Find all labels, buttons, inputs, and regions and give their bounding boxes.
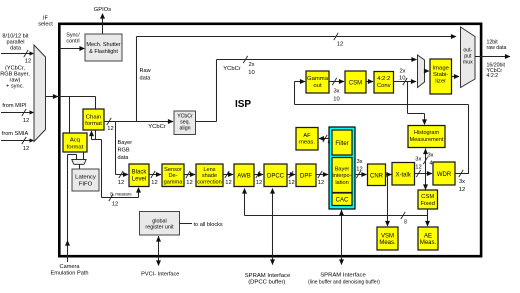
- svg-text:out: out: [313, 83, 322, 89]
- container denoising block (cyan): [329, 127, 355, 209]
- svg-text:Acq: Acq: [70, 138, 80, 144]
- svg-text:raw data: raw data: [487, 45, 507, 51]
- block AF meas.: [296, 128, 318, 151]
- block Bayer interpolation: [332, 158, 352, 193]
- wire branch down to Histogram Measurement: [407, 82, 409, 114]
- block VSM Meas.: [377, 227, 398, 250]
- svg-text:interpo-: interpo-: [333, 173, 352, 179]
- input IF-select mux: [34, 45, 46, 142]
- svg-text:10: 10: [248, 70, 254, 76]
- svg-text:format: format: [67, 144, 84, 150]
- block Latency FIFO: [72, 169, 99, 191]
- svg-text:4:2:2: 4:2:2: [487, 73, 499, 79]
- wire 4:2:2 Conv output 2x10 to small mux: [394, 81, 417, 83]
- svg-text:Image: Image: [433, 65, 450, 71]
- svg-text:WDR: WDR: [437, 172, 452, 178]
- svg-text:3x: 3x: [415, 157, 421, 163]
- svg-text:from MIPI: from MIPI: [2, 103, 27, 109]
- svg-text:SPRAM Interface: SPRAM Interface: [245, 273, 291, 279]
- wire chip output arrow: [475, 56, 510, 58]
- block DPF: [296, 164, 316, 187]
- svg-text:Conv: Conv: [377, 83, 391, 89]
- output mux: [461, 27, 476, 88]
- wire DPF to Bayer interpolation 12: [316, 174, 328, 176]
- svg-text:YCbCr: YCbCr: [148, 124, 165, 130]
- svg-text:data: data: [118, 155, 130, 161]
- block Histogram Measurement: [408, 126, 445, 148]
- wire DPCC to SPRAM interface (bidirectional): [272, 189, 274, 265]
- svg-text:3x: 3x: [333, 89, 339, 95]
- svg-text:Measurement: Measurement: [410, 137, 444, 143]
- wire AWB to DPCC 12: [254, 174, 263, 176]
- svg-text:Meas.: Meas.: [379, 240, 396, 246]
- svg-text:12: 12: [459, 187, 465, 193]
- svg-text:12: 12: [225, 180, 231, 186]
- svg-text:Latency: Latency: [75, 174, 96, 180]
- svg-text:12: 12: [186, 180, 192, 186]
- block DPCC: [264, 164, 287, 187]
- block Image Stabilizer: [430, 59, 452, 94]
- svg-text:12: 12: [23, 118, 29, 124]
- wire CSM Fixed to AE Meas: [427, 209, 429, 226]
- block CNR: [368, 164, 386, 186]
- svg-text:10: 10: [333, 97, 339, 103]
- funnel merge symbol below Acq format: [72, 160, 86, 165]
- block Lens shade correction: [196, 164, 223, 187]
- wire GPIOs up-arrow: [102, 14, 104, 34]
- svg-text:Bayer: Bayer: [118, 140, 133, 146]
- svg-text:(line buffer and denoising buf: (line buffer and denoising buffer): [308, 280, 380, 286]
- block AWB: [234, 164, 254, 187]
- svg-text:CAC: CAC: [336, 197, 349, 203]
- block WDR: [433, 162, 455, 185]
- svg-text:12: 12: [112, 202, 118, 208]
- block 4:2:2 Conv: [374, 72, 394, 94]
- svg-text:8: 8: [404, 220, 407, 226]
- svg-text:12: 12: [151, 180, 157, 186]
- wire AE feedback 8 to AWB: [245, 215, 428, 217]
- wire mux output into chip: [46, 96, 96, 98]
- svg-text:ISP: ISP: [235, 99, 251, 110]
- svg-text:RGB: RGB: [118, 148, 130, 154]
- svg-text:AF: AF: [303, 133, 311, 139]
- svg-text:GPIOs: GPIOs: [94, 7, 111, 13]
- svg-text:Chain: Chain: [86, 114, 101, 120]
- svg-text:De-: De-: [168, 173, 177, 179]
- svg-text:Camera: Camera: [60, 264, 81, 270]
- svg-text:DPF: DPF: [300, 174, 312, 180]
- block AE Meas.: [418, 227, 438, 250]
- svg-text:contrl: contrl: [66, 39, 79, 45]
- wire Acq format to funnel stub: [83, 152, 85, 160]
- svg-text:Bayer: Bayer: [335, 166, 350, 172]
- block X-talk: [392, 163, 415, 186]
- svg-text:Level: Level: [132, 176, 146, 182]
- svg-text:Emulation Path: Emulation Path: [51, 270, 89, 276]
- svg-text:format: format: [85, 121, 102, 127]
- svg-text:VSM: VSM: [381, 233, 394, 239]
- svg-text:Black: Black: [132, 170, 148, 176]
- svg-text:12: 12: [118, 180, 124, 186]
- wire CSM to 4:2:2 Conv: [366, 81, 373, 83]
- svg-text:Meas.: Meas.: [420, 240, 437, 246]
- wire Lens shade to AWB 12: [223, 174, 233, 176]
- svg-text:12: 12: [23, 146, 29, 152]
- svg-text:to all blocks: to all blocks: [194, 222, 223, 228]
- wire drop to Chain format jog: [95, 97, 97, 140]
- wire Histogram vertical to CSM Fixed with 3x12 3x4: [425, 149, 427, 190]
- svg-text:data: data: [140, 76, 152, 82]
- svg-text:& Flashlight: & Flashlight: [89, 49, 118, 55]
- svg-text:lizer: lizer: [435, 79, 446, 85]
- wire camera emulation path vertical: [67, 155, 69, 263]
- svg-text:YCbCr: YCbCr: [223, 66, 240, 72]
- svg-text:+ sync.: + sync.: [6, 84, 24, 90]
- block CAC: [332, 193, 352, 206]
- wire WDR feedback to Gamma out: [468, 105, 470, 174]
- svg-text:align: align: [180, 126, 191, 132]
- svg-text:3x: 3x: [427, 153, 433, 159]
- svg-text:Fixed: Fixed: [420, 201, 434, 207]
- wire Gamma out to CSM 3x10: [329, 81, 344, 83]
- svg-text:10,: 10,: [399, 76, 407, 82]
- block Black Level: [129, 164, 149, 187]
- svg-text:lation: lation: [335, 180, 348, 186]
- svg-text:12: 12: [256, 180, 262, 186]
- wire PVCI interface (bidirectional): [158, 236, 160, 266]
- wire Filter to AF meas 8: [319, 138, 329, 140]
- svg-text:3x: 3x: [356, 159, 362, 165]
- svg-text:12: 12: [25, 59, 31, 65]
- svg-text:SPRAM Interface: SPRAM Interface: [320, 272, 366, 278]
- wire parallel data input with bus width 12: [1, 53, 33, 55]
- wire branch down to Acq format: [69, 97, 71, 134]
- block Sensor De-gamma: [162, 164, 184, 187]
- wire CNR branch down to VSM Meas: [387, 175, 389, 226]
- wire Black Level to Sensor De-gamma 12: [149, 174, 161, 176]
- svg-text:12: 12: [107, 126, 113, 132]
- wire raw data 12-bit top line to output mux: [137, 36, 457, 38]
- wire to all blocks stub: [180, 223, 193, 225]
- wire denoising container to SPRAM interface (bidirectional): [341, 210, 343, 265]
- wire branch Bayer RGB data down to Black Level: [115, 122, 117, 175]
- svg-text:from SMIA: from SMIA: [2, 131, 29, 137]
- svg-text:2x: 2x: [399, 69, 405, 75]
- svg-text:2x: 2x: [248, 62, 254, 68]
- svg-text:Filter: Filter: [335, 141, 348, 147]
- block CSM: [345, 71, 366, 93]
- svg-text:PVCI- Interface: PVCI- Interface: [141, 271, 179, 277]
- wire seq align output YCbCr 2x10 to small mux: [196, 121, 217, 123]
- block Gamma out: [306, 71, 329, 93]
- svg-text:Stabi-: Stabi-: [433, 72, 448, 78]
- svg-text:AWB: AWB: [237, 174, 250, 180]
- svg-text:4:2:2: 4:2:2: [377, 76, 390, 82]
- wire Image Stabilizer to output mux: [452, 76, 460, 78]
- wire CNR to X-talk: [386, 174, 392, 176]
- block global register unit: [140, 212, 180, 236]
- svg-text:CNR: CNR: [370, 173, 384, 179]
- svg-text:12: 12: [288, 180, 294, 186]
- wire Bayer interpolation to CNR 3x12: [355, 174, 367, 176]
- svg-text:Gamma: Gamma: [307, 76, 329, 82]
- svg-text:CSM: CSM: [421, 194, 434, 200]
- wire mux to Image Stabilizer: [425, 70, 430, 72]
- svg-text:Mech. Shutter: Mech. Shutter: [86, 42, 120, 48]
- svg-text:3x: 3x: [459, 179, 465, 185]
- wire B measure line to Black Level: [96, 139, 102, 141]
- wire camera emulation jog into funnel: [68, 154, 77, 156]
- block Mech. Shutter & Flashlight: [85, 34, 122, 61]
- svg-text:Lens: Lens: [203, 167, 215, 173]
- wire raw data vertical: [136, 37, 138, 122]
- svg-text:put: put: [464, 54, 472, 60]
- svg-text:out-: out-: [463, 48, 472, 54]
- wire WDR output 3x12: [455, 173, 469, 175]
- svg-text:meas.: meas.: [299, 139, 315, 145]
- block Chain format: [83, 109, 104, 130]
- svg-text:data: data: [10, 46, 22, 52]
- svg-text:gamma: gamma: [164, 180, 184, 186]
- svg-text:12: 12: [415, 165, 421, 171]
- wire DPCC to DPF 12: [287, 174, 295, 176]
- wire Sensor De-gamma to Lens shade 12: [184, 174, 195, 176]
- svg-text:12: 12: [318, 180, 324, 186]
- block Acq format: [63, 133, 87, 152]
- svg-text:mux: mux: [463, 60, 473, 66]
- wire sync-contrl arrow: [60, 48, 81, 50]
- mux before Image Stabilizer: [418, 55, 425, 88]
- block YCbCr seq. align: [174, 111, 196, 135]
- wire funnel to Latency FIFO: [79, 164, 81, 169]
- svg-text:CSM: CSM: [349, 81, 362, 87]
- svg-text:Histogram: Histogram: [414, 130, 439, 136]
- wire X-talk to WDR: [415, 173, 433, 175]
- svg-text:FIFO: FIFO: [79, 181, 93, 187]
- svg-text:select: select: [38, 22, 53, 28]
- wire Chain format output YCbCr 12: [104, 121, 173, 123]
- svg-text:register unit: register unit: [145, 225, 174, 231]
- svg-text:Sensor: Sensor: [164, 167, 182, 173]
- svg-text:correction: correction: [197, 180, 222, 186]
- svg-text:Raw: Raw: [140, 68, 152, 74]
- wire from SMIA with bus width 12: [1, 140, 33, 142]
- svg-text:shade: shade: [202, 173, 217, 179]
- wire from MIPI with bus width 12: [1, 112, 33, 114]
- svg-text:DPCC: DPCC: [267, 174, 285, 180]
- svg-text:12: 12: [337, 42, 343, 48]
- svg-text:12: 12: [356, 167, 362, 173]
- svg-text:B, measure: B, measure: [110, 192, 132, 197]
- svg-text:(DPCC buffer): (DPCC buffer): [248, 280, 285, 286]
- svg-text:X-talk: X-talk: [396, 172, 412, 178]
- svg-text:AE: AE: [424, 233, 432, 239]
- block CSM Fixed: [418, 190, 438, 209]
- block Filter: [332, 130, 352, 155]
- svg-text:global: global: [152, 218, 166, 224]
- chip boundary (thick outer box): [59, 24, 481, 256]
